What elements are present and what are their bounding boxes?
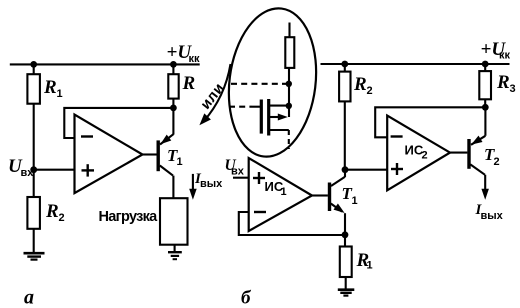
svg-text:R: R <box>43 77 57 98</box>
svg-text:2: 2 <box>59 212 65 224</box>
svg-text:1: 1 <box>177 156 183 168</box>
svg-text:вх: вх <box>21 167 35 179</box>
svg-text:R: R <box>45 201 59 222</box>
svg-text:1: 1 <box>367 260 373 272</box>
svg-text:а: а <box>24 287 34 308</box>
svg-text:Нагрузка: Нагрузка <box>99 209 159 225</box>
svg-text:вх: вх <box>231 166 245 178</box>
svg-text:1: 1 <box>281 186 287 198</box>
svg-text:1: 1 <box>57 88 63 100</box>
svg-text:вых: вых <box>481 210 504 222</box>
svg-text:2: 2 <box>422 150 428 162</box>
svg-text:вых: вых <box>200 178 223 190</box>
svg-text:б: б <box>241 288 252 308</box>
svg-text:2: 2 <box>367 85 373 97</box>
svg-text:1: 1 <box>352 195 358 207</box>
svg-text:кк: кк <box>499 50 511 62</box>
svg-text:3: 3 <box>510 83 516 95</box>
svg-text:кк: кк <box>189 53 201 65</box>
svg-text:2: 2 <box>494 156 500 168</box>
svg-text:R: R <box>182 73 196 94</box>
svg-text:R: R <box>353 74 367 95</box>
svg-text:R: R <box>496 72 510 93</box>
